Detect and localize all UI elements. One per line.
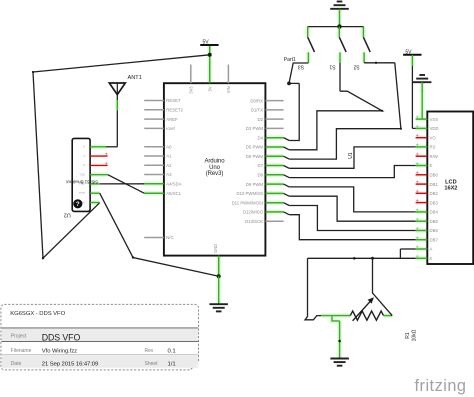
svg-text:Uno: Uno <box>209 165 221 171</box>
svg-text:ANT1: ANT1 <box>128 75 142 81</box>
svg-text:3V3: 3V3 <box>189 86 194 94</box>
svg-text:GND: GND <box>213 244 218 253</box>
svg-text:fritzing: fritzing <box>415 377 467 395</box>
svg-text:VDD: VDD <box>430 126 439 131</box>
svg-text:Part1: Part1 <box>284 57 296 63</box>
svg-text:D5 PWM: D5 PWM <box>246 145 264 150</box>
svg-text:1: 1 <box>83 154 85 158</box>
svg-text:S1: S1 <box>329 64 335 70</box>
svg-text:R/W: R/W <box>430 154 439 159</box>
svg-text:A5/SCL: A5/SCL <box>166 191 181 196</box>
svg-text:Vfo Wiring.fzz: Vfo Wiring.fzz <box>42 349 77 355</box>
svg-text:D0/RX: D0/RX <box>250 98 263 103</box>
svg-text:VSS: VSS <box>430 117 439 122</box>
svg-text:0.1: 0.1 <box>168 349 176 355</box>
svg-text:A: A <box>430 247 433 252</box>
svg-text:5V: 5V <box>202 40 209 46</box>
svg-text:Arduino: Arduino <box>204 158 225 164</box>
svg-text:K: K <box>430 256 433 261</box>
svg-text:D1/TX: D1/TX <box>251 108 263 113</box>
svg-text:DB4: DB4 <box>430 210 439 215</box>
svg-text:A0: A0 <box>166 144 172 149</box>
svg-text:DB1: DB1 <box>430 182 439 187</box>
svg-text:D8: D8 <box>258 173 264 178</box>
svg-text:AREF: AREF <box>166 117 178 122</box>
svg-text:Filename: Filename <box>11 348 32 354</box>
svg-text:DB5: DB5 <box>430 219 439 224</box>
svg-text:ioref: ioref <box>166 126 175 131</box>
svg-text:Gnd: Gnd <box>79 191 85 195</box>
svg-text:?: ? <box>76 201 80 208</box>
svg-text:VIN: VIN <box>226 86 231 93</box>
svg-text:D13/SCK: D13/SCK <box>245 219 263 224</box>
svg-text:D7: D7 <box>258 163 264 168</box>
svg-text:D2: D2 <box>258 117 264 122</box>
svg-text:N/C: N/C <box>166 235 173 240</box>
svg-text:Rev: Rev <box>145 348 154 354</box>
svg-text:U1: U1 <box>348 152 354 159</box>
svg-text:Project: Project <box>11 333 27 339</box>
svg-text:A1: A1 <box>166 154 172 159</box>
svg-text:Date: Date <box>11 361 22 367</box>
svg-text:S2: S2 <box>353 64 359 70</box>
svg-text:D3 PWM: D3 PWM <box>246 126 264 131</box>
svg-text:E: E <box>430 163 433 168</box>
svg-text:DB6: DB6 <box>430 228 439 233</box>
svg-text:SCL: SCL <box>79 173 85 177</box>
svg-text:A2: A2 <box>166 163 172 168</box>
svg-text:2: 2 <box>83 163 85 167</box>
svg-text:KG6SGX - DDS VFO: KG6SGX - DDS VFO <box>10 311 65 317</box>
svg-text:(Rev3): (Rev3) <box>206 171 224 177</box>
svg-text:D12/MISO: D12/MISO <box>243 210 264 215</box>
svg-text:D9 PWM: D9 PWM <box>246 182 264 187</box>
svg-text:D10 PWM/SS: D10 PWM/SS <box>236 191 263 196</box>
svg-text:RS: RS <box>430 145 436 150</box>
svg-text:10kΩ: 10kΩ <box>412 329 418 341</box>
svg-text:S3: S3 <box>298 64 304 70</box>
svg-text:1/1: 1/1 <box>168 362 176 368</box>
svg-text:R1: R1 <box>405 332 411 339</box>
svg-text:D11 PWM/MOSI: D11 PWM/MOSI <box>232 200 263 205</box>
svg-text:RESET2: RESET2 <box>166 108 183 113</box>
svg-text:DDS VFO: DDS VFO <box>42 332 81 342</box>
svg-text:U2: U2 <box>64 212 71 218</box>
svg-text:21 Sep 2015 16:47:09: 21 Sep 2015 16:47:09 <box>42 362 98 368</box>
svg-text:D4: D4 <box>258 135 264 140</box>
svg-text:DB7: DB7 <box>430 237 439 242</box>
svg-text:DB2: DB2 <box>430 191 439 196</box>
svg-text:0: 0 <box>83 145 85 149</box>
svg-text:16X2: 16X2 <box>444 185 457 191</box>
svg-text:A4/SDA: A4/SDA <box>166 182 181 187</box>
svg-text:A3: A3 <box>166 172 172 177</box>
svg-text:5V: 5V <box>208 86 213 91</box>
svg-text:Sheet: Sheet <box>145 361 159 367</box>
svg-text:5V: 5V <box>405 49 412 55</box>
svg-text:RESET: RESET <box>166 98 181 103</box>
svg-text:VO: VO <box>430 135 437 140</box>
svg-text:D6 PWM: D6 PWM <box>246 154 264 159</box>
svg-text:DB3: DB3 <box>430 200 439 205</box>
svg-text:Si5351 Breakout: Si5351 Breakout <box>66 179 99 184</box>
svg-text:DB0: DB0 <box>430 173 439 178</box>
